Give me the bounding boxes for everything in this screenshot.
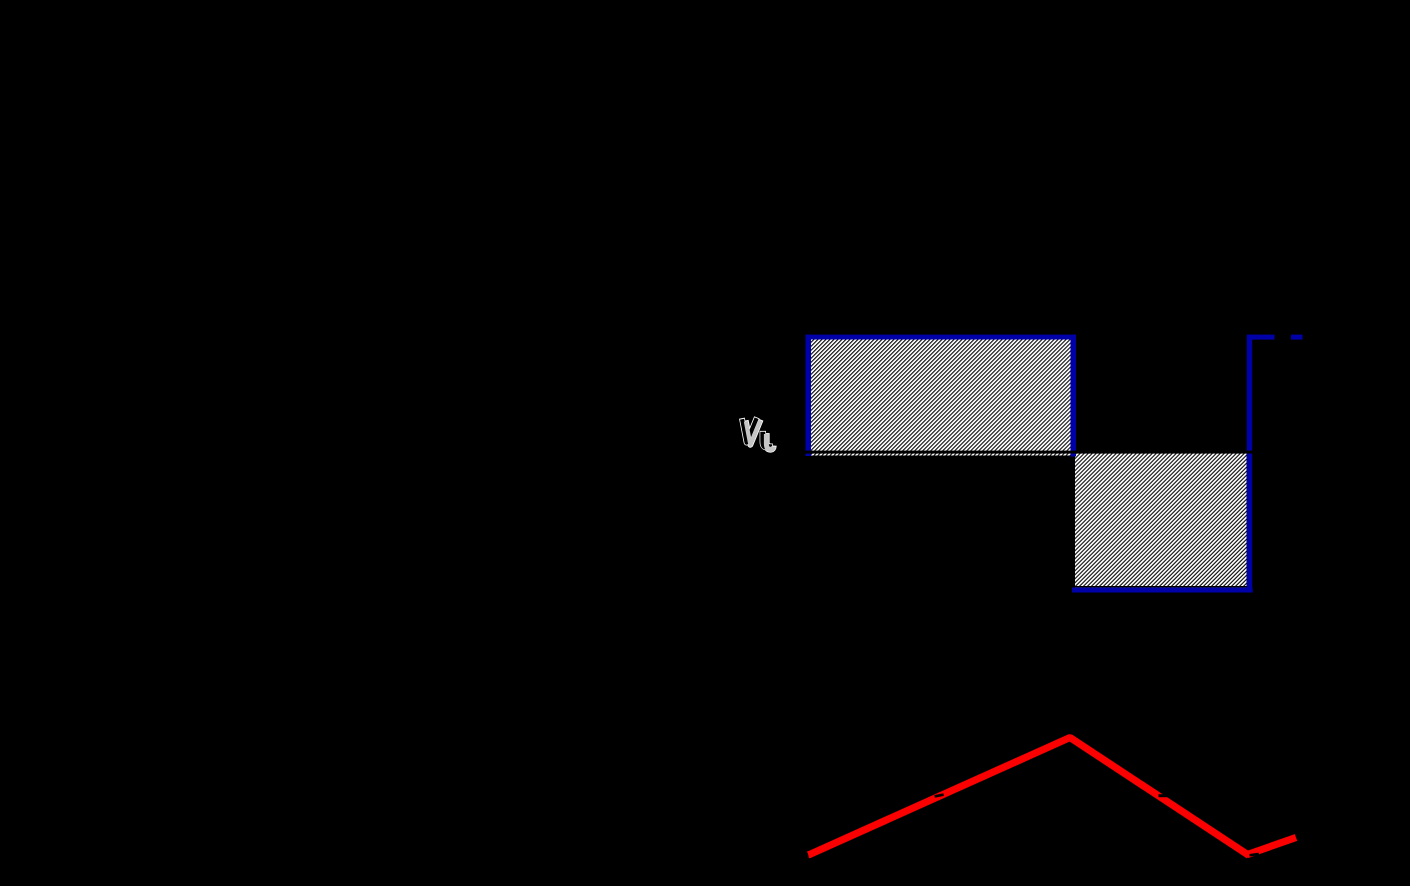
hatched area 1 (positive volt-seconds, DTs interval)	[811, 339, 1072, 456]
black core copy	[742, 418, 757, 442]
wire: v_L rising edge at t=0	[806, 335, 812, 456]
node red tail below trough	[1244, 852, 1252, 859]
white halo around gray copy	[746, 420, 761, 445]
wire: v_L square wave top segment (blue)	[806, 335, 1077, 340]
wire: dashed continuation of v_L top, dash 2	[1291, 335, 1303, 340]
node arrow notch on falling slope	[1159, 794, 1170, 797]
wire: v_L rising edge at Ts	[1247, 335, 1252, 593]
hatched area 2 (negative volt-seconds, D'Ts interval)	[1075, 451, 1247, 587]
wire: v_L bottom segment (blue)	[1072, 588, 1253, 593]
node V_L label	[742, 417, 774, 449]
wire: black bottom outline of negative area	[1075, 586, 1247, 587]
wire: time axis (black, cuts through waveform)	[799, 451, 1269, 454]
node arrow notch at trough	[1249, 853, 1259, 857]
white halo around black copy	[742, 417, 757, 442]
node arrow notch on rising slope	[934, 793, 944, 798]
wire: v_L falling edge at DTs	[1071, 335, 1077, 457]
gray shadow copy	[746, 420, 761, 444]
wire: i_L current waveform (red triangle)	[809, 738, 1297, 856]
node red arrow tip at start	[808, 851, 817, 859]
wire: dashed continuation of v_L top, dash 1	[1249, 335, 1275, 340]
